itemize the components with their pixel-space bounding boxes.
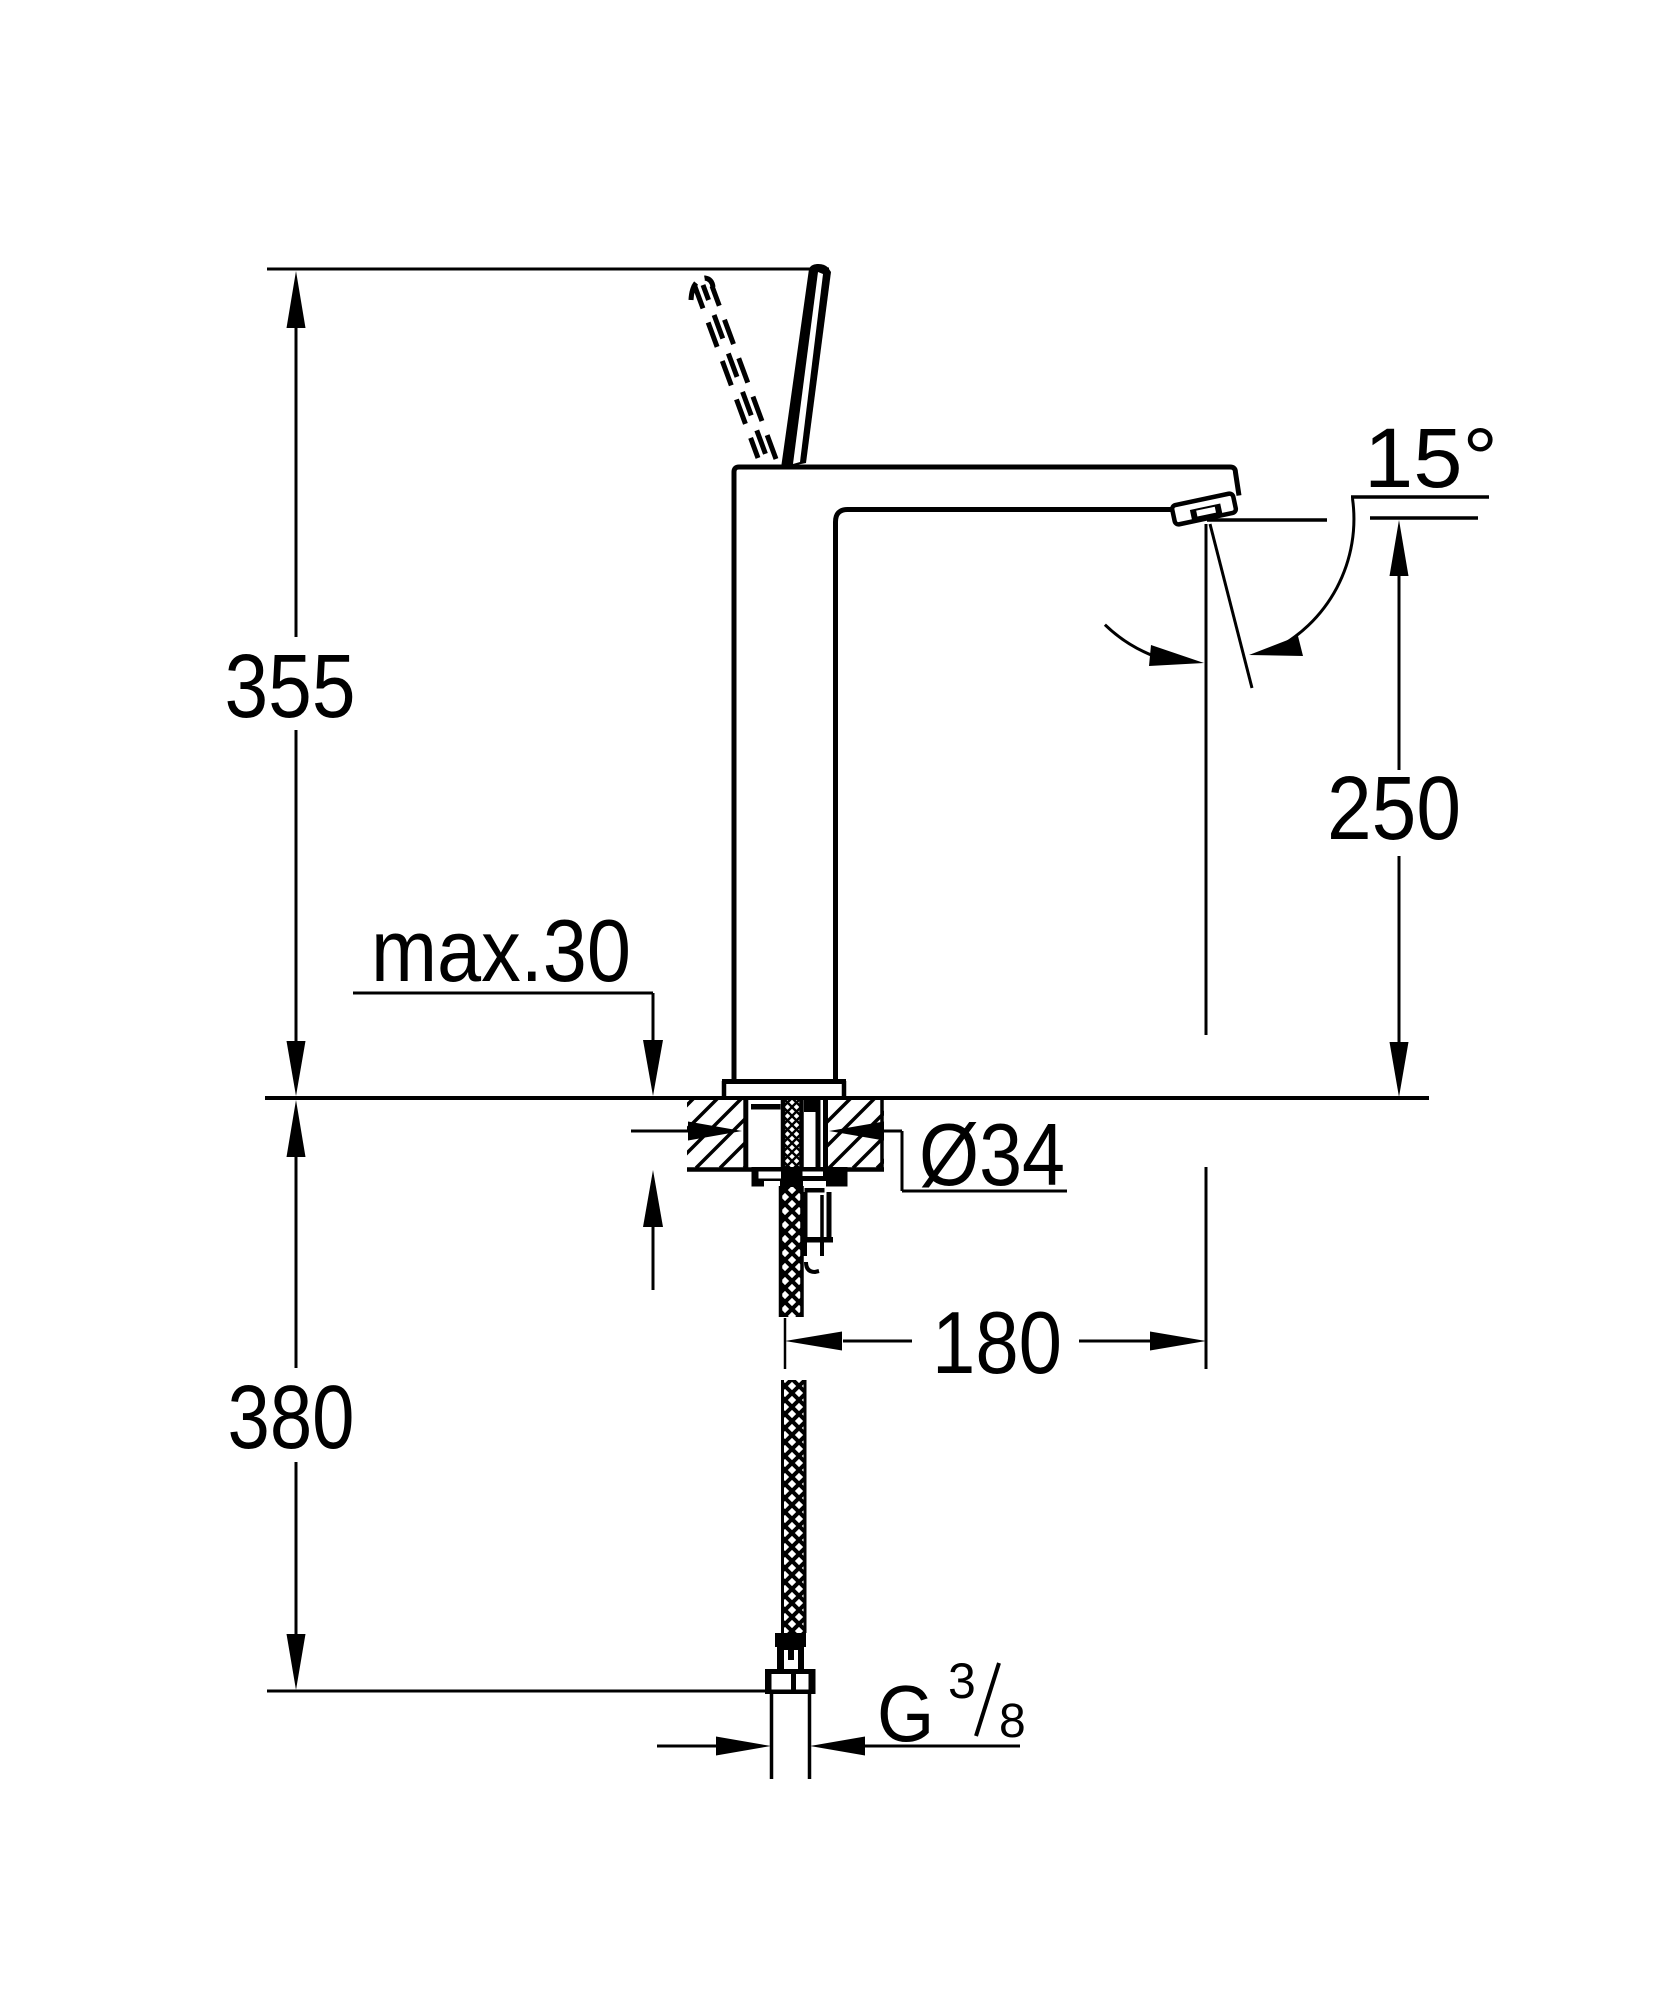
svg-text:3: 3: [948, 1653, 976, 1709]
svg-text:15°: 15°: [1364, 411, 1498, 505]
svg-text:250: 250: [1327, 759, 1461, 859]
svg-text:355: 355: [225, 637, 356, 737]
svg-text:G: G: [877, 1669, 934, 1759]
svg-text:8: 8: [999, 1695, 1026, 1748]
svg-text:180: 180: [932, 1293, 1062, 1392]
svg-text:Ø34: Ø34: [919, 1105, 1065, 1204]
svg-text:max.30: max.30: [371, 901, 631, 1000]
svg-text:380: 380: [228, 1368, 355, 1468]
